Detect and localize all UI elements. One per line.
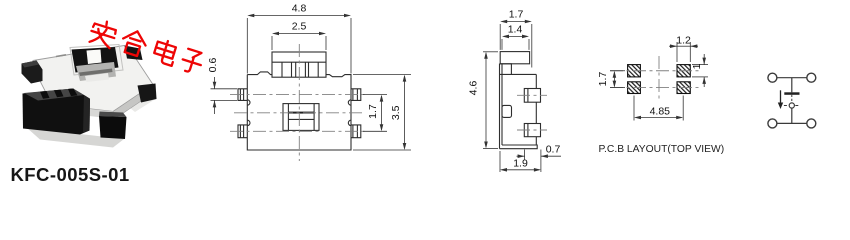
side view: body left wall (499, 64, 501, 149)
side view: bottom bracket plate (500, 145, 538, 149)
pcb: pad bottom-right (677, 82, 690, 94)
circuit: side dashes (784, 105, 788, 107)
photo: center plunger (72, 47, 119, 73)
circuit: terminal 2 (top-right) (807, 73, 816, 82)
char HE (119, 28, 148, 57)
top view: dimension 0.6 (211, 77, 238, 114)
photo: corner tab right (138, 84, 157, 103)
char ZI (180, 48, 205, 75)
photo: corner tab top-right (125, 46, 143, 61)
char AN (88, 18, 118, 49)
side view: body right edge upper (535, 74, 537, 88)
top view: center plunger (283, 104, 319, 131)
pcb: dimension 4.85 (634, 96, 683, 121)
top view: actuator protrusion (272, 52, 326, 77)
top view: plunger thick bar (288, 112, 314, 114)
svg-text:1.7: 1.7 (367, 104, 379, 119)
pcb: pad bottom-left (628, 82, 641, 94)
photo: switch body top plate (33, 45, 155, 120)
top view: dimension 3.5 (353, 75, 411, 150)
side view: upper body step (500, 64, 512, 75)
top view: centerlines (230, 44, 368, 161)
svg-text:0.6: 0.6 (207, 58, 219, 73)
circuit: wire from contact to bottom (791, 108, 793, 123)
side view: dimension 1.9 (500, 150, 541, 173)
circuit: top wire (777, 77, 807, 79)
side view: lead square 1 (524, 89, 540, 103)
top view: dimension 1.7 (363, 95, 387, 132)
circuit: actuation arrow (780, 90, 782, 103)
svg-text:1.7: 1.7 (597, 72, 609, 87)
top view: pin bottom-right (351, 125, 361, 138)
pcb: pad top-left (628, 65, 641, 77)
top view: dimension 2.5 (272, 34, 326, 51)
pcb: dimension 1 (692, 54, 708, 87)
circuit: bottom wire (777, 122, 807, 124)
svg-text:1.4: 1.4 (508, 24, 523, 36)
top view: pin top-left (238, 89, 248, 101)
pcb: dimension 1.7 (610, 71, 625, 88)
side view: body right edge lower (535, 137, 537, 145)
svg-text:3.5: 3.5 (390, 105, 402, 120)
side view: row centerlines (517, 95, 547, 130)
circuit: dashed actuation link (791, 95, 793, 103)
circuit: movable contact bar (784, 92, 799, 95)
circuit: terminal 4 (bottom-right) (807, 119, 816, 128)
side view: lead square 2 (524, 124, 540, 137)
circuit: terminal 1 (top-left) (768, 73, 777, 82)
side view: dimension 4.6 (483, 52, 498, 149)
side view: body right edge middle (535, 102, 537, 123)
svg-text:KFC-005S-01: KFC-005S-01 (11, 164, 130, 184)
pcb: dimension 1.2 (669, 42, 698, 62)
side view: left guide tab (502, 105, 512, 117)
photo: black actuator block (23, 89, 91, 135)
char DIAN (152, 38, 178, 66)
top view: dimension 4.8 (247, 16, 351, 74)
circuit: terminal 3 (bottom-left) (768, 119, 777, 128)
photo: foot bottom-right (99, 112, 127, 118)
svg-text:4.6: 4.6 (468, 81, 480, 96)
top view: body outline (247, 72, 351, 150)
side view: dimension 0.7 (517, 150, 562, 161)
photo: corner tab left (22, 61, 43, 84)
svg-text:4.8: 4.8 (292, 3, 307, 15)
top view: pin top-right (351, 89, 361, 101)
svg-text:0.7: 0.7 (546, 144, 561, 156)
top view: edge bumps (247, 100, 250, 105)
svg-text:P.C.B LAYOUT(TOP VIEW): P.C.B LAYOUT(TOP VIEW) (599, 144, 725, 155)
svg-text:1.9: 1.9 (513, 158, 528, 170)
circuit: contact point circle (789, 103, 794, 108)
circuit: wire from top to contact bar (791, 78, 793, 93)
pcb: centerlines (610, 56, 700, 102)
pcb: pad top-right (677, 65, 690, 77)
top view: pin bottom-left (238, 125, 248, 138)
side view: dimension 1.7 (500, 22, 532, 68)
svg-text:1: 1 (691, 63, 703, 69)
photo: shadow under part (26, 127, 124, 148)
side view: dimension 1.4 (502, 36, 529, 50)
svg-text:1.2: 1.2 (676, 35, 691, 47)
svg-text:4.85: 4.85 (650, 106, 671, 118)
watermark text An He Dian Zi (hand-drawn red CJK strokes) (88, 18, 204, 75)
svg-text:2.5: 2.5 (292, 21, 307, 33)
side view: actuator top (500, 52, 529, 64)
svg-text:1.7: 1.7 (509, 9, 524, 21)
